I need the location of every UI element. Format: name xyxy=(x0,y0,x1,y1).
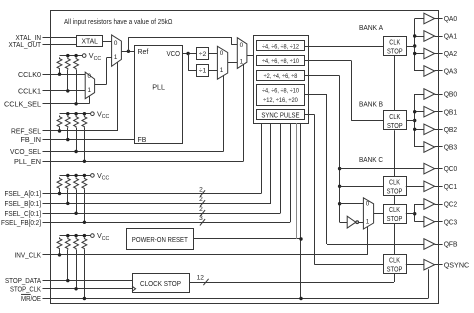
svg-text:QB2: QB2 xyxy=(444,125,458,134)
svg-text:CLK: CLK xyxy=(389,178,400,187)
svg-text:12: 12 xyxy=(197,275,205,282)
svg-text:CLOCK STOP: CLOCK STOP xyxy=(140,279,181,288)
svg-text:INV_CLK: INV_CLK xyxy=(15,251,42,260)
svg-text:XTAL: XTAL xyxy=(81,37,98,46)
svg-text:MR/OE: MR/OE xyxy=(21,294,41,303)
svg-text:STOP_CLK: STOP_CLK xyxy=(10,284,41,293)
svg-text:QC3: QC3 xyxy=(444,217,458,226)
svg-text:2: 2 xyxy=(199,186,203,193)
svg-text:QB3: QB3 xyxy=(444,143,458,152)
svg-text:Ref: Ref xyxy=(138,49,149,56)
svg-text:3: 3 xyxy=(199,215,203,222)
svg-text:XTAL_OUT: XTAL_OUT xyxy=(9,40,42,49)
svg-text:PLL: PLL xyxy=(152,83,165,92)
svg-text:1: 1 xyxy=(220,67,224,74)
svg-text:÷12, ÷16, ÷20: ÷12, ÷16, ÷20 xyxy=(263,97,298,104)
svg-text:BANK A: BANK A xyxy=(359,23,383,32)
svg-text:0: 0 xyxy=(88,73,92,80)
svg-text:1: 1 xyxy=(114,54,118,61)
svg-text:CCLK0: CCLK0 xyxy=(18,70,41,79)
svg-text:STOP: STOP xyxy=(387,46,403,55)
svg-text:÷4, ÷6, ÷8, ÷10: ÷4, ÷6, ÷8, ÷10 xyxy=(262,58,299,65)
svg-text:0: 0 xyxy=(114,40,118,47)
svg-text:QFB: QFB xyxy=(444,240,458,249)
svg-text:CLK: CLK xyxy=(389,37,400,46)
svg-text:CLK: CLK xyxy=(389,112,400,121)
svg-text:FSEL_FB[0:2]: FSEL_FB[0:2] xyxy=(1,218,41,227)
svg-text:VCO: VCO xyxy=(167,51,181,58)
svg-text:FB_IN: FB_IN xyxy=(21,135,42,144)
svg-text:÷4, ÷6, ÷8, ÷10: ÷4, ÷6, ÷8, ÷10 xyxy=(262,88,299,95)
svg-text:÷4, ÷6, ÷8, ÷12: ÷4, ÷6, ÷8, ÷12 xyxy=(262,43,299,50)
svg-text:FSEL_B[0:1]: FSEL_B[0:1] xyxy=(5,199,42,208)
svg-text:QSYNC: QSYNC xyxy=(444,260,470,269)
svg-text:STOP: STOP xyxy=(387,265,403,274)
svg-text:2: 2 xyxy=(199,206,203,213)
svg-text:CLK: CLK xyxy=(389,256,400,265)
svg-text:1: 1 xyxy=(240,59,244,66)
svg-text:SYNC PULSE: SYNC PULSE xyxy=(261,112,299,119)
svg-text:FSEL_A[0:1]: FSEL_A[0:1] xyxy=(5,189,42,198)
svg-text:CCLK1: CCLK1 xyxy=(18,87,41,96)
svg-text:÷1: ÷1 xyxy=(199,68,207,75)
svg-text:QA0: QA0 xyxy=(444,14,458,23)
svg-text:VCO_SEL: VCO_SEL xyxy=(10,147,41,156)
svg-text:QC2: QC2 xyxy=(444,200,458,209)
svg-text:QC1: QC1 xyxy=(444,182,458,191)
svg-text:1: 1 xyxy=(88,87,92,94)
svg-text:2: 2 xyxy=(199,196,203,203)
svg-text:CLK: CLK xyxy=(389,205,400,214)
svg-text:STOP: STOP xyxy=(387,121,403,130)
svg-text:QB0: QB0 xyxy=(444,90,458,99)
svg-text:÷2, ÷4, ÷6, ÷8: ÷2, ÷4, ÷6, ÷8 xyxy=(264,73,298,80)
svg-text:0: 0 xyxy=(240,42,244,49)
svg-text:BANK B: BANK B xyxy=(359,99,383,108)
svg-text:STOP: STOP xyxy=(387,187,403,196)
svg-text:0: 0 xyxy=(220,50,224,57)
svg-text:POWER-ON RESET: POWER-ON RESET xyxy=(132,235,188,244)
svg-text:QB1: QB1 xyxy=(444,107,458,116)
svg-text:STOP: STOP xyxy=(387,214,403,223)
svg-text:CCLK_SEL: CCLK_SEL xyxy=(4,99,41,108)
svg-text:÷2: ÷2 xyxy=(199,51,207,58)
svg-text:All input resistors have a val: All input resistors have a value of 25kΩ xyxy=(64,19,173,26)
svg-text:PLL_EN: PLL_EN xyxy=(14,157,41,166)
svg-text:QA2: QA2 xyxy=(444,49,458,58)
svg-text:QC0: QC0 xyxy=(444,164,458,173)
svg-text:QA3: QA3 xyxy=(444,67,458,76)
svg-text:1: 1 xyxy=(366,218,370,225)
svg-text:0: 0 xyxy=(366,201,370,208)
svg-text:BANK C: BANK C xyxy=(359,155,383,164)
svg-text:FB: FB xyxy=(138,137,147,144)
svg-text:QA1: QA1 xyxy=(444,32,458,41)
svg-text:FSEL_C[0:1]: FSEL_C[0:1] xyxy=(5,209,42,218)
